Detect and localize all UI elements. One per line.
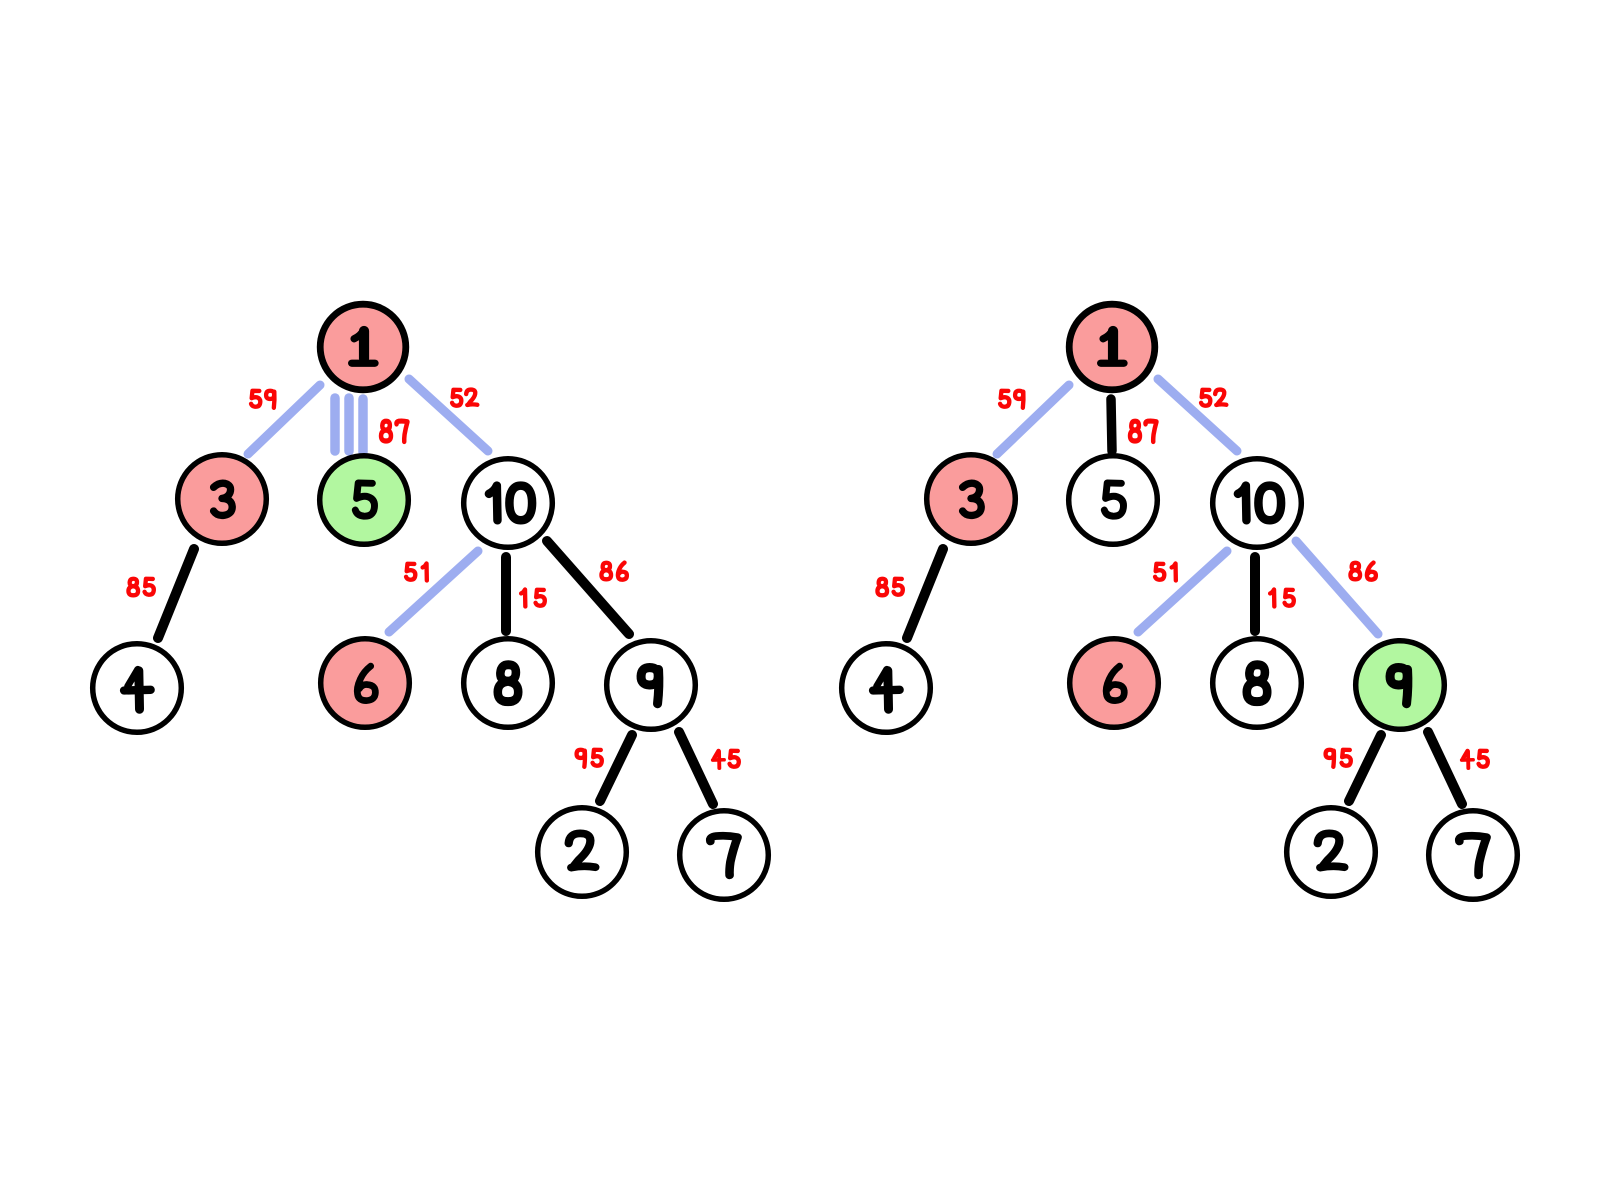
label left tree: weight 45 xyxy=(713,751,739,768)
wire left tree: edge 10-8 weight 15 (black) xyxy=(501,557,511,631)
node 2 (right tree) xyxy=(1287,808,1376,897)
label right tree: weight 59 xyxy=(1000,391,1023,408)
node 9 (right tree) xyxy=(1356,641,1445,730)
label left tree: weight 15 xyxy=(521,589,545,606)
label left tree: weight 87 xyxy=(381,421,407,442)
node 2 (left tree) xyxy=(538,808,627,897)
label left tree: weight 52 xyxy=(452,390,477,406)
wire right tree: edge 1-10 weight 52 (blue) xyxy=(1158,379,1237,451)
label left tree: weight 85 xyxy=(128,579,153,596)
wire left tree: edge 10-9 weight 86 xyxy=(547,541,629,634)
wire right tree: edge 9-2 weight 95 (black) xyxy=(1349,735,1381,801)
wire left tree: edge 9-7 weight 45 (black) xyxy=(679,732,713,804)
node 3 (left tree) xyxy=(178,455,267,544)
wire right tree: edge 1-5 weight 87 (black) xyxy=(1111,399,1112,451)
wire right tree: edge 10-6 weight 51 (blue) xyxy=(1138,551,1227,632)
wire left tree: edge 1-5 weight 87 (triple blue mark) xyxy=(335,398,363,452)
label right tree: weight 52 xyxy=(1201,390,1226,406)
node 5 (right tree) xyxy=(1069,456,1158,545)
node 5 (left tree) xyxy=(320,456,409,545)
node 8 (left tree) xyxy=(464,639,553,728)
wire right tree: edge 10-9 weight 86 xyxy=(1296,541,1378,634)
wire left tree: edge 3-4 weight 85 (black) xyxy=(158,549,194,638)
node 1 (right tree) xyxy=(1069,304,1155,390)
node 10 (left tree) xyxy=(464,459,553,548)
label right tree: weight 45 xyxy=(1462,751,1488,768)
node 7 (right tree) xyxy=(1429,811,1518,900)
node 4 (left tree) xyxy=(93,644,182,733)
label right tree: weight 51 xyxy=(1155,563,1176,580)
wire left tree: edge 10-6 weight 51 (blue) xyxy=(389,551,478,632)
label left tree: weight 86 xyxy=(601,563,626,580)
wire left tree: edge 9-2 weight 95 (black) xyxy=(600,735,632,801)
wire right tree: edge 3-4 weight 85 (black) xyxy=(907,549,943,638)
wire right tree: edge 9-7 weight 45 (black) xyxy=(1428,732,1462,804)
node 7 (left tree) xyxy=(680,811,769,900)
label right tree: weight 15 xyxy=(1270,589,1294,606)
wire left tree: edge 1-3 weight 59 (blue) xyxy=(248,385,320,454)
node 6 (left tree) xyxy=(321,639,410,728)
node 1 (left tree) xyxy=(320,304,406,390)
label right tree: weight 87 xyxy=(1130,421,1156,442)
wire right tree: edge 10-8 weight 15 (black) xyxy=(1250,557,1260,631)
wire left tree: edge 1-10 weight 52 (blue) xyxy=(409,379,488,451)
label right tree: weight 86 xyxy=(1350,563,1375,580)
label right tree: weight 85 xyxy=(877,579,902,596)
node 6 (right tree) xyxy=(1070,639,1159,728)
node 3 (right tree) xyxy=(927,455,1016,544)
wire right tree: edge 1-3 weight 59 (blue) xyxy=(997,385,1069,454)
node 9 (left tree) xyxy=(607,641,696,730)
label right tree: weight 95 xyxy=(1326,750,1351,767)
label left tree: weight 51 xyxy=(406,563,427,580)
node 10 (right tree) xyxy=(1213,459,1302,548)
label left tree: weight 95 xyxy=(577,750,602,767)
node 4 (right tree) xyxy=(842,644,931,733)
node 8 (right tree) xyxy=(1213,639,1302,728)
label left tree: weight 59 xyxy=(251,391,274,408)
